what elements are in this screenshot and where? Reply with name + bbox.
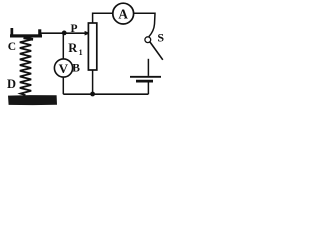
svg-text:1: 1 [79,48,83,57]
svg-text:S: S [157,31,164,45]
svg-text:D: D [7,77,16,91]
svg-text:A: A [118,7,128,22]
svg-text:R: R [68,41,78,55]
svg-text:C: C [8,41,16,53]
svg-text:B: B [72,63,80,75]
svg-text:P: P [71,23,78,35]
svg-text:V: V [59,61,69,76]
